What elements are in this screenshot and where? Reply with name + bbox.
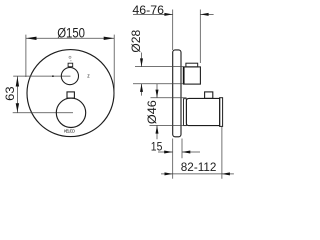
side view: top knob left edge thick (183, 67, 185, 84)
svg-text:82-112: 82-112 (181, 160, 217, 174)
extension line top (151, 97, 187, 99)
svg-text:15: 15 (151, 139, 163, 153)
dim 63 dimension line (13, 76, 73, 113)
side view: bottom knob end cap (220, 98, 223, 127)
dim Ø28 (133, 53, 184, 96)
arrowhead Ø150 left (26, 37, 37, 40)
dim Ø46 (150, 84, 187, 139)
extension line top (135, 66, 184, 68)
arrowhead Ø28 down (140, 58, 143, 66)
svg-text:Ø150: Ø150 (57, 25, 85, 40)
arrowhead 46-76 right (200, 13, 208, 16)
centerline tick (52, 75, 54, 77)
svg-text:KEUCO: KEUCO (64, 128, 76, 133)
extension line right (113, 35, 115, 96)
extension line left (25, 35, 27, 77)
dim 15 (158, 139, 200, 179)
arrowhead Ø46 up (156, 125, 159, 133)
marking 0 (69, 56, 71, 58)
svg-text:63: 63 (3, 86, 17, 101)
side view: wall plate (173, 50, 181, 137)
svg-text:46-76: 46-76 (132, 3, 164, 17)
extension line right (knob end) (221, 127, 223, 179)
arrowhead 82-112 right (222, 172, 230, 175)
arrowhead 15 right (182, 151, 190, 154)
arrowhead Ø150 right (104, 37, 115, 40)
arrowhead 15 left (164, 151, 172, 154)
extension line right (181, 139, 183, 159)
arrowhead 63 up (16, 77, 19, 87)
side view: top knob cap (186, 63, 198, 67)
side view: bottom knob tab (205, 92, 213, 99)
arrowhead Ø28 up (140, 84, 143, 92)
dim 46-76 (133, 10, 214, 64)
extension line bottom (150, 124, 187, 126)
extension line bottom (133, 83, 184, 85)
arrowhead Ø46 down (156, 90, 159, 98)
side view: bottom knob body (186, 98, 219, 125)
side view: bottom knob ring (184, 99, 187, 126)
bottom knob (thermostat) front view (56, 98, 85, 127)
bottom knob tab (67, 92, 74, 98)
top knob (stop valve) front view (61, 68, 78, 85)
extension line left (172, 139, 174, 179)
arrowhead 46-76 left (164, 13, 172, 16)
svg-text:z: z (87, 73, 90, 79)
dim Ø150 dimension line (26, 35, 114, 96)
dim 82-112 (161, 127, 234, 179)
extension line top (knob centerline) (13, 75, 70, 77)
front view: cover plate circle (27, 50, 114, 137)
extension line left (wall) (172, 10, 174, 51)
extension line right (knob end) (199, 10, 201, 64)
top knob tab (68, 63, 73, 66)
marking dot (70, 60, 71, 61)
svg-text:Ø28: Ø28 (129, 29, 143, 52)
side view: top knob body (184, 67, 201, 84)
svg-text:Ø46: Ø46 (145, 100, 159, 124)
extension line bottom (knob centerline) (13, 112, 73, 114)
arrowhead 63 down (16, 103, 19, 112)
arrowhead 82-112 left (165, 172, 173, 175)
